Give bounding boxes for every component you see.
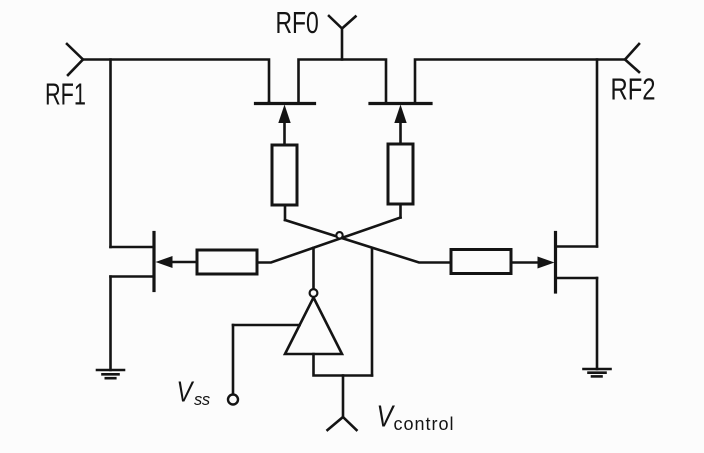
svg-text:RF0: RF0 [276,4,319,39]
svg-text:V: V [377,399,396,433]
svg-text:RF1: RF1 [45,77,86,112]
svg-text:ss: ss [194,391,210,409]
svg-text:RF2: RF2 [611,71,656,106]
svg-text:V: V [177,375,195,408]
svg-text:control: control [394,414,455,434]
